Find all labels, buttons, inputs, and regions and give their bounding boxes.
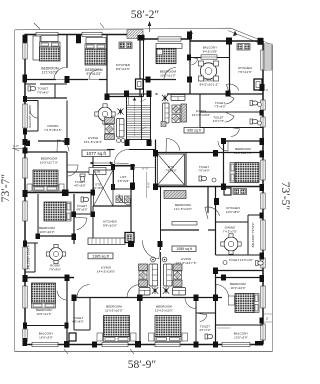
- outer wall right: [262, 41, 264, 345]
- tick marks left: [12, 148, 24, 150]
- window balcony D bottom rail: [261, 324, 265, 340]
- svg-text:6'-0": 6'-0": [142, 167, 148, 171]
- balcony D bottom wall: [216, 324, 264, 326]
- window bedroom3 top: [158, 37, 181, 41]
- window bedroom B right: [261, 160, 265, 180]
- bedroom5 walls: [37, 194, 39, 236]
- top dimension ticks: [34, 23, 40, 29]
- svg-text:1185 sq.ft: 1185 sq.ft: [92, 254, 109, 258]
- sofa living C horizontal: [139, 288, 150, 296]
- toilet A1 wc: [28, 86, 36, 91]
- svg-text:TOILET7'0"x4'0": TOILET7'0"x4'0": [198, 165, 210, 173]
- cupboard label: [89, 168, 106, 175]
- bedroom D2 bottom wall: [161, 229, 200, 231]
- window bedroom9 right: [261, 286, 265, 308]
- svg-text:TOILET4'0"x7'0": TOILET4'0"x7'0": [199, 325, 210, 333]
- svg-text:BEDROOM10'0"x10'0": BEDROOM10'0"x10'0": [39, 226, 55, 234]
- OTS left with cross: [94, 170, 114, 206]
- tick top right: [233, 31, 237, 37]
- bedroom9 left wall: [215, 271, 217, 345]
- bed 10 bedroom B: [230, 163, 259, 183]
- kitchen C counter: [88, 238, 125, 245]
- sofa A: [117, 119, 125, 138]
- door bedroom6: [57, 290, 67, 300]
- utility shaft right hatch: [264, 44, 272, 70]
- bedroom7 walls: [139, 298, 141, 345]
- svg-text:KITCHEN10'3"x8'0": KITCHEN10'3"x8'0": [226, 206, 240, 214]
- dining kitchen bottom wall: [156, 93, 158, 95]
- lift columns: [111, 164, 115, 170]
- window bedroom8 bottom: [155, 342, 180, 346]
- area box 1089 sq ft: [172, 246, 196, 252]
- kitchen D walls: [215, 187, 217, 256]
- dim tick balcony D: [217, 327, 230, 329]
- toilet A3 wc: [80, 174, 85, 182]
- toilet B3 walls: [185, 153, 187, 187]
- door bedroom4 toilet: [67, 165, 78, 176]
- columns interior bottom-left: [65, 275, 70, 282]
- door dining-balcony A: [30, 110, 38, 118]
- svg-text:BEDROOM11'4.5"x10'0": BEDROOM11'4.5"x10'0": [105, 305, 123, 313]
- svg-text:1089 sq.ft: 1089 sq.ft: [176, 247, 191, 251]
- svg-text:950 sq.ft: 950 sq.ft: [187, 129, 200, 133]
- bedroom4 bottom wall - flat A/C boundary: [25, 192, 93, 194]
- svg-text:TOILET4'0"x7'3": TOILET4'0"x7'3": [213, 116, 225, 124]
- kitchen C fridge: [125, 233, 134, 243]
- svg-text:TOILET 12'0"x4'0": TOILET 12'0"x4'0": [229, 258, 253, 262]
- bedroom D2 right wall: [207, 187, 209, 214]
- tick top x190: [189, 30, 193, 35]
- lobby dim arrow: [90, 162, 113, 164]
- door flat A entry: [115, 150, 129, 164]
- svg-text:2': 2': [266, 317, 269, 321]
- svg-text:DINING7'4.5"x7'0": DINING7'4.5"x7'0": [223, 226, 238, 234]
- window bedroom4 left: [23, 158, 27, 178]
- bedroom B top wall: [224, 140, 264, 142]
- wall living D - bedrooms: [140, 297, 222, 299]
- balcony B bottom wall: [190, 57, 230, 59]
- downlights living A: [117, 139, 121, 143]
- OTS right with cross: [158, 154, 185, 185]
- north tick top: [148, 21, 152, 26]
- corridor-livingD wall: [160, 187, 162, 251]
- window toilet D1 right: [261, 258, 265, 268]
- svg-text:BALCONY 7'9"x3'0": BALCONY 7'9"x3'0": [251, 223, 255, 248]
- door bedroom5: [74, 217, 87, 230]
- svg-text:9'-0": 9'-0": [147, 182, 151, 188]
- svg-text:BEDROOM12'1.5"x10'0": BEDROOM12'1.5"x10'0": [174, 203, 192, 211]
- toilet B walls: [199, 94, 201, 128]
- site boundary line: [15, 28, 273, 351]
- svg-text:BEDROOM10'4.5"x10'3": BEDROOM10'4.5"x10'3": [155, 305, 173, 313]
- dining table B: [199, 61, 219, 81]
- window balcony C left: [23, 329, 27, 342]
- sofa living C vertical: [149, 264, 158, 286]
- fan living C: [152, 287, 158, 293]
- columns right wall: [260, 84, 265, 91]
- stair shaft: [127, 94, 151, 140]
- kitchen A stove: [119, 42, 132, 49]
- bedroom8 walls: [195, 298, 197, 345]
- bed 4 side tables: [27, 184, 32, 191]
- door bedroom8: [185, 298, 196, 309]
- svg-text:58′-9″: 58′-9″: [128, 359, 157, 371]
- outer wall left: [24, 35, 26, 345]
- wall bedroom3 left: [143, 35, 145, 97]
- columns interior right: [153, 150, 158, 157]
- window bedroom6 left: [23, 286, 27, 308]
- bed 6: [32, 283, 56, 308]
- bed7 side tables: [97, 333, 103, 341]
- bedroom D2 bench: [172, 222, 197, 226]
- toilet B2 wc: [250, 119, 258, 124]
- svg-text:TOILET4'9"x6'0": TOILET4'9"x6'0": [76, 204, 88, 212]
- svg-text:BALCONY 4'0"x8'9": BALCONY 4'0"x8'9": [28, 104, 32, 127]
- landing wall: [113, 165, 135, 167]
- door bedroom B: [218, 141, 228, 151]
- living A / flat boundary wall: [25, 151, 67, 153]
- wall bedroom2-kitchenA: [106, 35, 108, 97]
- columns left wall: [23, 75, 28, 83]
- toilet C2 walls: [73, 298, 75, 331]
- toilet D2 walls: [196, 312, 216, 314]
- kitchen C walls: [93, 205, 131, 207]
- bed 8: [155, 316, 181, 342]
- wall bedroom3 left lower: [143, 39, 145, 80]
- svg-text:KITCHEN8'9"x11'6": KITCHEN8'9"x11'6": [116, 63, 130, 71]
- dining table A: [95, 104, 115, 124]
- sofa living D horizontal: [173, 288, 186, 296]
- bed8 side tables: [149, 333, 155, 341]
- window toilet B right: [261, 100, 265, 110]
- window balcony D right rail: [261, 220, 265, 250]
- kitchen A bottom wall: [107, 96, 144, 98]
- study room walls: [25, 277, 74, 279]
- tv strip living D: [173, 264, 182, 271]
- door toilet B2: [225, 112, 234, 122]
- bed 3: [156, 48, 176, 63]
- svg-text:BALCONY14'0"x3'9": BALCONY14'0"x3'9": [39, 332, 54, 340]
- sofa B vertical: [163, 103, 170, 123]
- svg-text:58′-2″: 58′-2″: [131, 9, 160, 21]
- window balcony C bottom rail: [32, 342, 58, 346]
- stair top wall: [107, 93, 151, 95]
- fan living D: [163, 287, 169, 293]
- dining A right wall: [66, 101, 68, 142]
- bed 3 headboard: [156, 44, 182, 49]
- outer wall top-right step: [189, 39, 191, 41]
- door bedroom1: [54, 68, 66, 80]
- wall bedroom1-bedroom2: [66, 35, 68, 69]
- window kitchen D right: [261, 193, 265, 209]
- svg-text:BEDROOM9'9"x10'3": BEDROOM9'9"x10'3": [85, 68, 102, 76]
- kitchen D stove: [233, 189, 247, 195]
- balcony D right walls: [247, 215, 249, 255]
- balcony window to dining: [201, 55, 217, 59]
- window kitchen B right: [261, 50, 265, 70]
- utility hatch above kitchen A: [127, 30, 143, 39]
- bed 7: [104, 316, 130, 342]
- columns interior mid-left: [36, 234, 41, 240]
- columns bedroom3 walls: [146, 77, 151, 83]
- svg-text:BEDROOM10'0"x11'3": BEDROOM10'0"x11'3": [36, 308, 52, 316]
- door toilet D2: [199, 314, 207, 322]
- svg-text:ROOM7'9"x9'0": ROOM7'9"x9'0": [49, 264, 61, 272]
- tv strip living C: [139, 264, 148, 271]
- bed 1 bedroom1: [33, 36, 40, 60]
- bed 2 bedroom2: [86, 38, 106, 44]
- stair columns: [124, 91, 129, 98]
- toilet C walls: [74, 213, 91, 215]
- door kitchen B: [226, 84, 239, 94]
- toilet D2 wc: [205, 334, 213, 339]
- bedroom3 bottom wall: [144, 79, 177, 81]
- sideboard A: [105, 118, 115, 124]
- window balcony A left: [23, 104, 27, 128]
- toilet A1 walls: [25, 97, 67, 99]
- sofa B horizontal: [171, 95, 185, 101]
- door flat C entry: [119, 193, 131, 205]
- living partition wall C-D: [160, 252, 162, 298]
- svg-text:BALCONY 3'0"x7'9": BALCONY 3'0"x7'9": [27, 245, 31, 270]
- door bedroom3: [164, 68, 176, 80]
- svg-text:73′-5″: 73′-5″: [279, 182, 291, 211]
- sofa living D vertical: [164, 264, 173, 286]
- bedroom D2 wardrobe: [164, 191, 186, 199]
- window balcony C2 left: [23, 247, 27, 269]
- kitchen B left wall: [229, 41, 231, 94]
- svg-text:KITCHEN7'0"x11'6": KITCHEN7'0"x11'6": [238, 66, 252, 74]
- lobby top wall: [107, 149, 115, 151]
- bed 9: [235, 294, 259, 313]
- window balcony D bottom: [222, 342, 250, 346]
- columns interior flat A: [65, 76, 70, 83]
- bedroom3 right wall: [189, 39, 191, 94]
- toilet D1 walls: [216, 254, 264, 256]
- small box living B: [161, 122, 166, 127]
- dining table D: [221, 234, 241, 254]
- svg-text:BEDROOM10'3"x10'0": BEDROOM10'3"x10'0": [230, 282, 246, 290]
- svg-text:TOILET7'9"x4'0": TOILET7'9"x4'0": [37, 87, 49, 95]
- svg-text:BALCONY13'0"x3'9": BALCONY13'0"x3'9": [234, 332, 249, 340]
- door toilet lobby B: [231, 128, 240, 137]
- svg-text:TOILET4'0"x6'0": TOILET4'0"x6'0": [72, 316, 84, 324]
- kitchen B sink: [254, 79, 262, 90]
- bed9 side table: [229, 296, 235, 305]
- svg-text:1077 sq.ft: 1077 sq.ft: [86, 151, 107, 156]
- toilet C2 sink: [69, 333, 76, 341]
- fan living B: [162, 95, 168, 101]
- window bedroom5 left: [23, 201, 27, 221]
- window bedroom1 left: [23, 43, 27, 59]
- door bedroom7: [127, 285, 140, 298]
- kitchen A sink: [136, 79, 144, 89]
- downlights living: [151, 257, 156, 262]
- columns bottom wall: [64, 341, 70, 348]
- tv unit B: [172, 105, 180, 113]
- svg-text:1'-6": 1'-6": [13, 144, 19, 148]
- svg-text:BEDROOM11'1"x10'3": BEDROOM11'1"x10'3": [41, 67, 58, 75]
- toilet C wc: [81, 197, 89, 202]
- columns top wall: [23, 35, 28, 43]
- svg-text:BEDROOM10'0"x11'7.5": BEDROOM10'0"x11'7.5": [40, 157, 58, 165]
- bedroom9 top wall: [216, 277, 264, 279]
- balcony C walls: [25, 325, 67, 327]
- kitchen D sink: [224, 188, 231, 195]
- outer wall bottom: [25, 344, 264, 346]
- toilet A3 walls: [66, 152, 68, 192]
- fan living A: [118, 109, 124, 115]
- kitchen B stove: [237, 44, 250, 51]
- window bedroom1 top: [36, 32, 58, 36]
- OTS toilet row top wall: [156, 152, 264, 154]
- cupboard wall: [93, 165, 113, 167]
- svg-text:BALCONY8'4.5"x3'9": BALCONY8'4.5"x3'9": [203, 46, 218, 54]
- window bedroom7 bottom: [102, 342, 128, 346]
- lift: [114, 166, 134, 189]
- svg-text:TOILET7'3"x4'0": TOILET7'3"x4'0": [214, 101, 226, 109]
- bedroom6 walls: [66, 278, 68, 345]
- area box 1077 sq ft: [82, 150, 110, 157]
- toilet B3 wc: [199, 176, 207, 181]
- wall living C - bedrooms: [74, 297, 140, 299]
- corridor wall left below lift: [130, 190, 132, 244]
- bottom dimension line: [15, 351, 272, 353]
- door bedroom D2: [205, 207, 220, 219]
- store below lift: [116, 196, 123, 203]
- OTS toilet row bottom wall - flat B/D boundary: [156, 186, 264, 188]
- door balcony B: [190, 57, 198, 65]
- balcony A walls: [25, 100, 38, 102]
- toilet D1 wc: [256, 261, 264, 266]
- corridor wall right: [155, 140, 157, 187]
- door toilet B1: [225, 94, 234, 104]
- door bedroom4 living: [57, 140, 69, 152]
- balcony C2 left walls: [25, 242, 38, 244]
- bed 5: [44, 202, 71, 221]
- wall below bedrooms 1-2: [25, 79, 56, 81]
- wall kitchenA right: [139, 35, 141, 97]
- window bedroom2 top: [82, 32, 102, 36]
- round table study: [46, 244, 65, 263]
- area box 950 sq ft: [184, 128, 204, 134]
- door living B lobby: [166, 139, 180, 153]
- area box 1185 sq ft: [88, 253, 113, 259]
- toilet B1 wc: [250, 101, 258, 106]
- door flat D entry: [142, 240, 160, 259]
- svg-text:BEDROOM10'3"x10'7.5": BEDROOM10'3"x10'7.5": [234, 147, 252, 155]
- bed 4: [33, 170, 58, 191]
- door bedroom2: [89, 70, 99, 80]
- door bedroom9: [216, 285, 229, 298]
- door toilet C2 passage: [77, 285, 90, 298]
- svg-text:73′-7″: 73′-7″: [0, 174, 12, 203]
- outer wall top: [25, 34, 141, 36]
- outer wall top step at kitchenA: [139, 35, 141, 40]
- svg-text:KITCHEN9'9"x10'0": KITCHEN9'9"x10'0": [103, 220, 117, 228]
